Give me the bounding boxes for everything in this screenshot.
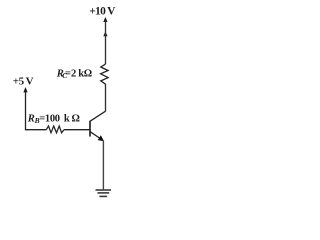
wire emitter <box>102 141 104 191</box>
wire collector <box>105 84 107 112</box>
resistor RB <box>46 126 64 133</box>
transistor Q1 emitter lead <box>90 132 101 139</box>
supply arrow +10V (upper arrowhead) <box>103 17 107 22</box>
svg-text:+5 V: +5 V <box>13 76 34 88</box>
wire base supply vertical <box>26 90 47 130</box>
supply arrow +5V <box>23 87 27 92</box>
svg-text:RB=100kΩ: RB=100kΩ <box>27 113 80 125</box>
wire base <box>64 129 90 131</box>
svg-text:+10 V: +10 V <box>89 6 116 18</box>
supply arrow +10V (lower arrowhead) <box>103 31 107 36</box>
transistor Q1 emitter arrowhead <box>98 135 104 141</box>
resistor RC <box>101 64 109 84</box>
transistor Q1 collector lead <box>90 111 105 121</box>
transistor Q1 base bar <box>89 121 91 137</box>
ground <box>96 190 112 196</box>
wire collector supply <box>105 20 107 64</box>
svg-text:RC=2kΩ: RC=2kΩ <box>56 68 93 80</box>
